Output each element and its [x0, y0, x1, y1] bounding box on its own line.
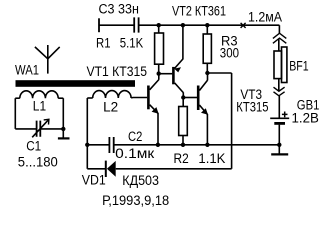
- svg-text:BF1: BF1: [289, 59, 308, 74]
- svg-text:VD1: VD1: [82, 173, 106, 188]
- svg-text:КТ315: КТ315: [236, 100, 268, 115]
- node rail/VT2 emitter: [181, 23, 185, 27]
- base bar: [197, 86, 200, 111]
- svg-text:R2: R2: [174, 151, 189, 166]
- capacitor C3: [134, 17, 138, 32]
- wire BF1 to battery: [278, 96, 280, 118]
- diode VD1: [106, 161, 116, 177]
- wire VT3 base: [183, 97, 197, 99]
- svg-text:КД503: КД503: [122, 173, 159, 188]
- antenna WA1: [35, 45, 60, 74]
- wire L2 to VT1 base: [131, 97, 147, 99]
- svg-text:VT1 КТ315: VT1 КТ315: [87, 64, 148, 79]
- svg-text:L2: L2: [103, 100, 118, 115]
- node VT2 collector/R2/VT3 base: [181, 95, 185, 99]
- emitter diagonal: [175, 59, 183, 68]
- node VT3 emitter/rail: [205, 143, 209, 147]
- ground (tank): [58, 137, 70, 139]
- node rail/R1: [157, 23, 161, 27]
- svg-text:C3 33н: C3 33н: [99, 2, 139, 17]
- collector vertical: [207, 73, 209, 81]
- emitter diagonal: [199, 105, 207, 114]
- resistor R1: [155, 25, 164, 73]
- node VT1 emitter/rail: [156, 143, 160, 147]
- wire L1 bottom left: [15, 128, 36, 130]
- svg-text:VT2 КТ361: VT2 КТ361: [172, 3, 226, 18]
- collector diagonal: [175, 83, 184, 93]
- transistor VT2: [173, 25, 183, 97]
- resistor R2: [179, 98, 188, 145]
- emitter arrow: [152, 107, 159, 114]
- capacitor C2: [109, 137, 113, 153]
- inductor L1: [15, 91, 63, 98]
- node R3/VT3 collector: [205, 71, 209, 75]
- base bar: [172, 67, 175, 84]
- emitter vertical: [206, 114, 208, 145]
- collector vertical: [182, 92, 184, 97]
- node tank/ground: [61, 127, 65, 131]
- emitter arrow: [201, 108, 208, 115]
- transistor VT3: [198, 73, 208, 145]
- wire VD1 row left: [87, 168, 105, 170]
- emitter arrow (PNP, points to base): [174, 67, 181, 72]
- svg-text:L1: L1: [33, 98, 46, 113]
- svg-text:1.1K: 1.1K: [198, 151, 225, 166]
- transistor VT1: [148, 73, 158, 144]
- wire R3 bottom to vertical feedback wire: [207, 72, 231, 74]
- wire bottom rail (emitter/common rail) left part: [87, 144, 109, 146]
- ground (battery minus): [278, 145, 280, 154]
- wire top rail corner down to BF1: [278, 25, 280, 33]
- wire L1 bottom right: [40, 128, 63, 130]
- inductor L2: [87, 91, 131, 98]
- capacitor C1 (variable): [32, 119, 49, 137]
- wire L2 left lead down (through C2 node to VD1 row): [86, 98, 88, 169]
- node R2/rail: [181, 143, 185, 147]
- wire VT2 base: [159, 73, 173, 75]
- base bar: [147, 86, 150, 110]
- svg-text:0.1мк: 0.1мк: [115, 146, 154, 161]
- svg-text:C2: C2: [128, 129, 142, 144]
- svg-text:5.1K: 5.1K: [120, 35, 143, 50]
- wire vertical feedback (R3/VT3 collector down to VD1 row): [231, 73, 233, 169]
- svg-text:C1: C1: [26, 139, 41, 154]
- collector diagonal: [199, 80, 207, 90]
- node terminal bar (left end of C3 wire): [98, 18, 100, 32]
- resistor R3: [203, 25, 211, 73]
- node rail/R3: [205, 23, 209, 27]
- node battery/rail/ground: [277, 143, 281, 147]
- svg-text:WA1: WA1: [15, 62, 39, 77]
- label + (battery): [282, 112, 288, 118]
- emitter diagonal: [150, 105, 158, 114]
- svg-text:R1: R1: [96, 35, 111, 50]
- svg-text:1.2мА: 1.2мА: [248, 10, 282, 25]
- phone BF1: [273, 33, 287, 96]
- wire top rail right segment: [139, 24, 280, 26]
- svg-text:Р,1993,9,18: Р,1993,9,18: [102, 193, 169, 208]
- node L2/C2/VD1: [85, 143, 89, 147]
- battery GB1: [270, 118, 289, 145]
- wire bottom rail right part: [114, 144, 280, 146]
- emitter vertical: [157, 113, 159, 145]
- svg-text:1.2В: 1.2В: [292, 111, 319, 126]
- ferrite core bar (magnetic antenna rod): [16, 80, 136, 87]
- wire VD1 row right: [116, 168, 232, 170]
- wire L1 right side: [62, 98, 64, 138]
- emitter vertical to rail: [182, 25, 184, 59]
- measurement point x (1.2mA): [241, 23, 246, 28]
- collector vertical: [158, 73, 160, 79]
- wire top rail left segment: [99, 24, 134, 26]
- wire L1 left side: [14, 98, 16, 129]
- svg-text:300: 300: [220, 45, 239, 60]
- collector diagonal: [150, 80, 159, 90]
- node R1/VT1 collector/VT2 base: [157, 71, 161, 75]
- svg-text:5...180: 5...180: [18, 154, 58, 169]
